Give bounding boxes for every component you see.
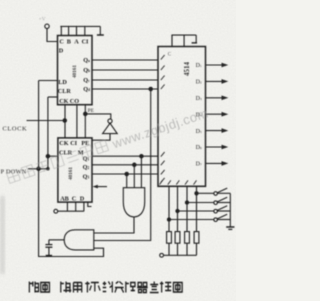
wire U1 Qb to U3 xyxy=(92,69,158,71)
wire Qd feedback vertical xyxy=(94,89,151,241)
U3 top pin 1 xyxy=(171,35,173,46)
and-gate G2 (pointing left) xyxy=(64,230,94,250)
svg-text:LD: LD xyxy=(58,79,67,86)
svg-text:AB: AB xyxy=(60,195,69,202)
wire PE node to inverter xyxy=(85,114,111,119)
node switch row3 xyxy=(176,209,179,212)
svg-text:C: C xyxy=(72,195,76,202)
svg-text:Q2: Q2 xyxy=(83,164,90,171)
resistor R2 xyxy=(175,232,180,244)
switch S3 xyxy=(178,206,231,213)
svg-text:CK: CK xyxy=(59,98,68,105)
svg-text:CO: CO xyxy=(70,98,79,105)
svg-text:CLR: CLR xyxy=(58,88,72,95)
wire R3 bottom xyxy=(186,243,188,255)
wire U2 bottom bus xyxy=(58,210,84,212)
wire U2 Q3 to U3 xyxy=(92,173,158,175)
wire rail B to U2 left pin xyxy=(48,155,58,157)
wire U1 Qc to U3 xyxy=(92,79,158,81)
wire Q1 to gate G1 xyxy=(140,156,142,188)
and-gate G1 (pointing down) xyxy=(123,188,144,217)
resistor R4 xyxy=(194,232,199,244)
U3 VSS tick bar xyxy=(192,42,197,44)
wire U1 Qa to U3 xyxy=(92,59,158,61)
wire Q2 to gate G1 xyxy=(133,165,135,188)
U3 VSS tick drop xyxy=(195,35,197,42)
svg-text:B: B xyxy=(67,39,71,46)
svg-text:D: D xyxy=(80,195,85,202)
svg-text:Qb: Qb xyxy=(83,67,90,74)
wire resistor bus xyxy=(164,254,197,256)
node switch row1 xyxy=(195,192,198,195)
svg-text:CLOCK: CLOCK xyxy=(3,126,28,133)
labels U3 xyxy=(168,53,202,168)
U3 output arrows D1-D7 xyxy=(206,63,229,166)
node PE junction xyxy=(84,112,87,115)
ground C1 xyxy=(46,255,52,257)
resistor R3 xyxy=(185,232,190,244)
wire switch bus xyxy=(229,193,231,227)
svg-text:Qd: Qd xyxy=(83,86,90,93)
U2 input arrow xyxy=(93,185,108,189)
VSS tick bar xyxy=(97,34,104,36)
node P.DOWN junction xyxy=(37,167,40,170)
U1 pin C stub xyxy=(60,26,62,35)
wire P.DOWN line xyxy=(28,168,48,170)
ground switch bus xyxy=(226,227,234,229)
scanner streak left xyxy=(0,196,5,274)
wire U1 pin to PE node xyxy=(84,105,86,138)
wire rail A to U1 LD xyxy=(39,80,58,82)
decoder U3 (4514) body xyxy=(158,47,206,187)
svg-text:D: D xyxy=(59,47,64,54)
wire rail B vertical xyxy=(47,97,49,169)
U3 bottom pin 1 xyxy=(168,186,170,231)
node Q1 junction xyxy=(140,155,143,158)
counter U1 (40161) body xyxy=(58,36,93,105)
node CLOCK junction xyxy=(63,119,66,122)
wire G2 output to capacitor xyxy=(49,239,64,241)
svg-text:Q3: Q3 xyxy=(83,173,90,180)
switch S4 xyxy=(169,214,230,221)
labels U2 xyxy=(59,140,89,203)
U3 bottom pin 3 xyxy=(186,186,188,231)
svg-text:CK: CK xyxy=(59,140,68,147)
wire R1 bottom xyxy=(168,243,170,255)
VSS tick drop xyxy=(99,26,101,34)
U3 pin marks left lower xyxy=(161,152,165,182)
U3 bottom pin 2 xyxy=(177,186,179,231)
labels U1 xyxy=(58,39,90,105)
svg-text:C: C xyxy=(59,39,63,46)
svg-text:+V: +V xyxy=(39,17,46,23)
resistor R1 xyxy=(167,232,172,244)
svg-text:40161: 40161 xyxy=(68,167,74,180)
U3 top pin 2 xyxy=(183,35,185,46)
svg-text:CI: CI xyxy=(70,140,77,147)
wire U1 Qd to U3 xyxy=(92,88,158,90)
U1 pin A stub xyxy=(76,26,78,35)
U3 top tie bar xyxy=(171,34,196,36)
capacitor C1 xyxy=(45,240,52,255)
wire U2 Q1 to U3 xyxy=(92,155,158,157)
wire rail B to U1 CLR xyxy=(48,96,58,98)
U2 bottom pin A xyxy=(66,202,68,211)
U3 pin marks left top xyxy=(161,55,165,89)
wire Q3 to gate G1 xyxy=(126,174,128,188)
terminal U2 bus xyxy=(54,209,58,213)
U1 top tie bar xyxy=(60,25,100,27)
wire R4 bottom xyxy=(196,243,198,255)
caption xyxy=(29,282,182,293)
node switch row2 xyxy=(185,201,188,204)
svg-text:CI: CI xyxy=(82,39,89,46)
counter U2 (40161) body xyxy=(58,138,92,202)
U3 pin marks bottom xyxy=(160,180,197,184)
inverter U4 bubble xyxy=(108,119,112,123)
switch S1 xyxy=(197,188,231,195)
U3 bottom pin 4 xyxy=(196,186,198,231)
terminal resistor bus xyxy=(160,253,164,257)
svg-text:Qc: Qc xyxy=(83,77,90,84)
wire G1 output to G2 input1 xyxy=(94,217,134,233)
node rail B junction xyxy=(47,168,49,170)
wire U1 CO pin to U2 CI xyxy=(76,105,78,138)
wire supply to U1 D pin xyxy=(47,29,58,42)
node rail B to U2 xyxy=(46,155,49,158)
U1 pin CI stub xyxy=(84,26,86,35)
U2 bottom pin B xyxy=(75,202,77,211)
wire U1 CK pin to U2 CK xyxy=(64,105,66,138)
U1 pin B stub xyxy=(68,26,70,35)
node switch row4 xyxy=(167,218,170,221)
svg-text:PE: PE xyxy=(88,108,95,114)
wire U2 Q2 to U3 xyxy=(92,164,158,166)
U2 bottom pin D jog xyxy=(88,202,92,206)
switch S2 xyxy=(187,197,230,204)
svg-text:40161: 40161 xyxy=(72,65,78,78)
inverter U4 triangle xyxy=(103,123,118,133)
wire inverter to U2 PE xyxy=(92,134,110,141)
watermark diagonal xyxy=(6,105,210,186)
node Q2 junction xyxy=(133,163,136,166)
wire rail A LD / reset rail xyxy=(39,81,104,257)
wire R2 bottom xyxy=(177,243,179,255)
wire CLOCK line xyxy=(27,120,65,122)
svg-text:A: A xyxy=(74,39,79,46)
node Qd junction xyxy=(149,87,152,90)
svg-text:4514: 4514 xyxy=(183,62,191,77)
U2 bottom pin C xyxy=(83,202,85,211)
node Q3 junction xyxy=(125,172,128,175)
supply terminal xyxy=(45,24,49,28)
svg-text:Qa: Qa xyxy=(83,57,90,64)
